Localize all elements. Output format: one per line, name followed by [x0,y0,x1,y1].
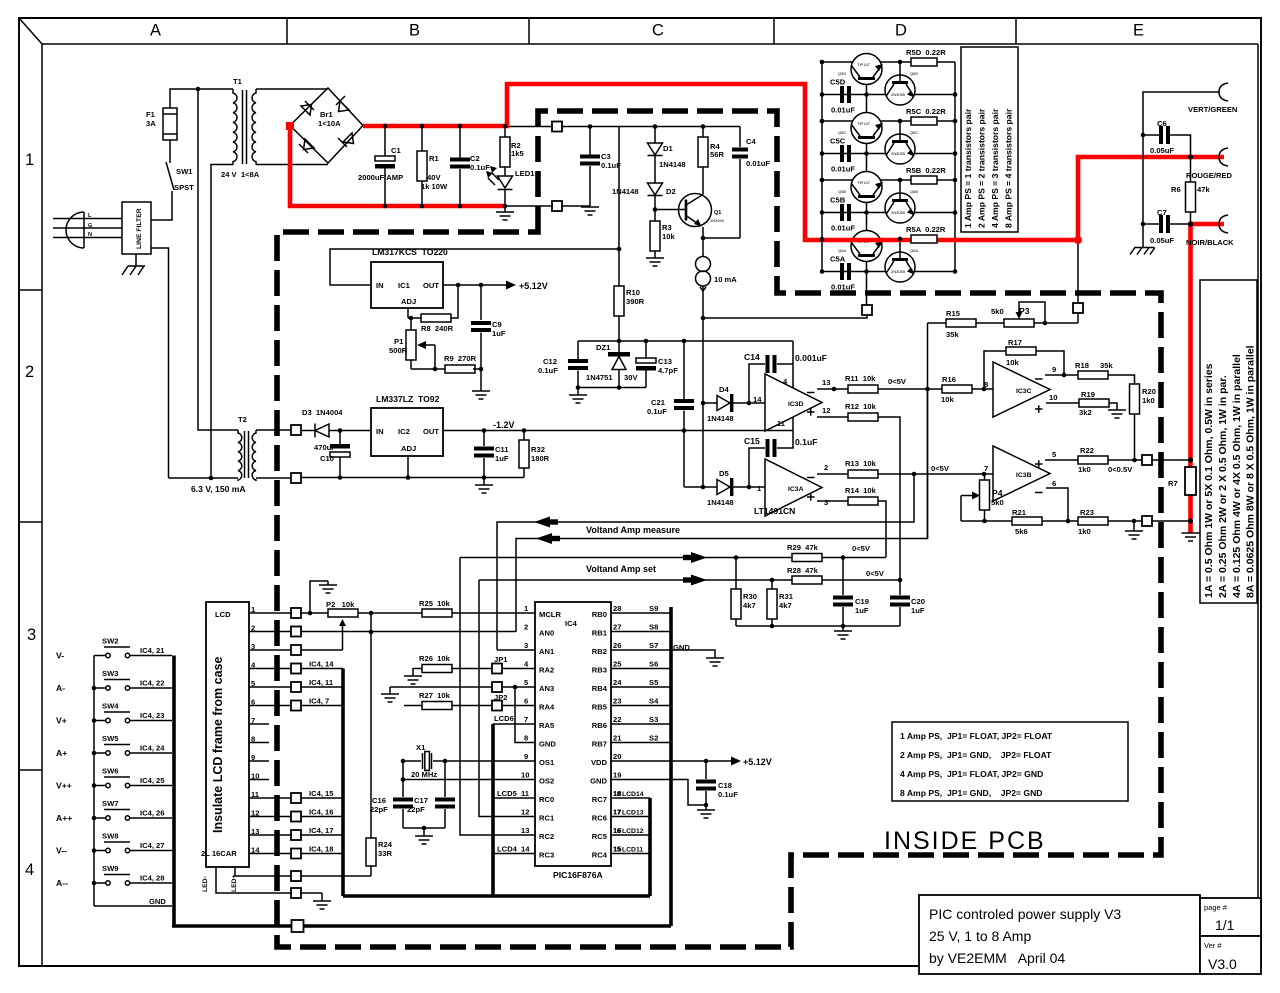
wire IC3A out 2 [817,473,848,475]
wire SW7 left [94,817,106,819]
red wire to NOIR and load R7 [1191,224,1225,533]
node Q6B base [898,178,903,183]
wire AN3 to GND pin8 [515,687,535,743]
svg-text:22pF: 22pF [370,805,388,814]
wire D2 to base node [654,196,656,210]
jumper JP2 upper [492,682,502,692]
node SW6 bus [92,783,97,788]
node C3 top [588,124,593,129]
svg-text:RB2: RB2 [592,647,607,656]
svg-text:ADJ: ADJ [401,444,416,453]
svg-text:Q1: Q1 [714,210,721,216]
resistor R1 1k 10W [421,126,423,151]
wire IC1 input [330,249,619,285]
svg-text:R27 10k: R27 10k [419,691,451,700]
svg-text:R5B 0.22R: R5B 0.22R [906,166,946,175]
wire S9 pin 28 [611,612,671,614]
node R9 to C9 [479,367,484,372]
wire LCD13 pin 17 [611,816,650,818]
wire LED minus [216,867,291,893]
svg-text:11: 11 [521,789,530,798]
resistor R5B 0.22R [911,176,937,184]
wire stage C cap rail [822,153,955,155]
wire SW5 left [94,752,106,754]
svg-text:2: 2 [824,463,828,472]
svg-text:OS1: OS1 [539,758,555,767]
node zener gnd [576,385,581,390]
ground LED minus [321,893,323,901]
wire LCD pin14 [249,853,291,855]
svg-text:3: 3 [524,641,528,650]
wire IC3A in 3 [817,500,848,502]
wire P3 to collector feed [1034,322,1078,324]
diode D3 1N4004 [301,430,315,432]
info box jumper settings [892,722,1128,801]
svg-text:1 Amp PS, JP1= FLOAT, JP2= FL: 1 Amp PS, JP1= FLOAT, JP2= FLOAT [900,731,1053,741]
svg-text:S9: S9 [649,604,658,613]
transistor Q5A TIP147 [851,231,882,262]
svg-text:C17: C17 [414,796,428,805]
node R31 bottom [770,624,775,629]
resistor R4 56R [702,127,704,138]
row tick 1-2 [19,289,42,291]
svg-text:P2 10k: P2 10k [326,600,355,609]
svg-text:P4: P4 [992,488,1003,498]
node Q6A base on red [898,237,903,242]
svg-text:LCD13: LCD13 [622,810,644,817]
svg-text:IC4, 25: IC4, 25 [140,776,165,785]
svg-text:R1: R1 [429,154,439,163]
svg-text:2000uF/AMP: 2000uF/AMP [358,173,403,182]
node stage C rail right [953,151,958,156]
transistor Q1 2N3904 [679,194,712,227]
node D5 x703 [701,485,706,490]
svg-text:1uF: 1uF [495,454,509,463]
svg-text:R16: R16 [942,375,956,384]
svg-text:JP1: JP1 [494,655,508,664]
svg-text:26: 26 [613,641,621,650]
svg-text:OS2: OS2 [539,777,554,786]
wire filter to ground [135,254,137,266]
node stage B center [864,210,869,215]
svg-text:8 Amp PS, JP1= GND, JP2= G: 8 Amp PS, JP1= GND, JP2= GND [900,788,1043,798]
svg-text:R6: R6 [1171,185,1181,194]
wire set 1 to PIC RC2 [460,558,535,836]
capacitor C5B 0.01uF [842,204,849,221]
node C7 left [1141,222,1146,227]
connector square minus rail [552,201,562,211]
svg-text:13: 13 [822,378,830,387]
potentiometer P3 5k0 [1004,319,1034,327]
connector square S bus [292,920,304,932]
svg-text:23: 23 [613,697,621,706]
wire LED plus to R24 [301,875,371,877]
node R1 bottom [420,204,425,209]
svg-text:A++: A++ [56,813,72,823]
svg-text:GND: GND [149,897,166,906]
node SW9 bus [92,881,97,886]
svg-text:IN: IN [376,427,384,436]
svg-text:14: 14 [521,845,530,854]
svg-text:IC1: IC1 [398,281,411,290]
svg-text:C10: C10 [320,454,334,463]
wire S7 gnd stub [671,650,715,658]
connector square T2 bottom [291,473,301,483]
svg-text:IC4, 14: IC4, 14 [309,660,334,669]
capacitor C7 0.05uF [1142,135,1144,224]
ground under C12 [577,388,579,396]
node DZ1 top [617,339,622,344]
wire LCD pin9 stub [249,760,269,762]
resistor R32 180R [523,431,525,441]
wire filter to SW1 [151,191,172,220]
svg-text:R12 10k: R12 10k [845,402,877,411]
node R13 out [912,472,917,477]
bus LCD bottom horizontal [343,894,650,898]
wire LCD pin6 [249,705,291,707]
svg-text:AN3: AN3 [539,684,554,693]
svg-text:0.1uF: 0.1uF [718,790,738,799]
wire IC3D out 13 [817,388,848,390]
svg-text:Ver #: Ver # [1204,941,1222,950]
svg-text:LCD6: LCD6 [494,714,514,723]
node X1 left [401,759,406,764]
svg-text:VERT/GREEN: VERT/GREEN [1188,105,1237,114]
node D4 cathode [747,401,752,406]
svg-text:0.1uF: 0.1uF [601,161,621,170]
svg-text:1k 10W: 1k 10W [421,182,448,191]
svg-text:SW8: SW8 [102,832,118,841]
wire R23 to red [1152,520,1191,522]
node SW8 bus [92,848,97,853]
node D4 anode [701,401,706,406]
wire IC1 output [443,284,508,286]
arrow +5.12V [506,281,516,290]
node R20 bottom [1132,458,1137,463]
wire C6 C7 ground [1142,224,1144,247]
svg-text:0<5V: 0<5V [888,377,907,386]
svg-text:0.01uF: 0.01uF [831,165,855,174]
resistor R27 10k [422,702,452,710]
connector square T2 top [291,425,301,435]
svg-text:Q6C: Q6C [910,130,918,135]
svg-text:RC1: RC1 [539,814,555,823]
svg-text:SW6: SW6 [102,767,118,776]
svg-text:TIP147: TIP147 [857,121,871,126]
node SW3 bus [92,686,97,691]
node D1 rail [653,124,658,129]
svg-text:2: 2 [524,623,528,632]
svg-text:C5A: C5A [830,255,846,264]
connector NOIR/BLACK [1219,215,1228,233]
svg-text:25: 25 [613,660,622,669]
svg-text:V+: V+ [56,716,67,726]
svg-text:IC4, 23: IC4, 23 [140,711,164,720]
dashed inside PCB boundary [277,111,1161,947]
node C2 top [458,124,463,129]
svg-text:1A = 0.5 Ohm 1W or 5X 0.1 Ohm,: 1A = 0.5 Ohm 1W or 5X 0.1 Ohm, 0.5W in s… [1203,363,1215,598]
resistor R5D 0.22R [911,58,937,66]
wire filter to T2 winding [151,248,169,478]
svg-text:1 Amp PS = 1 transistors pair: 1 Amp PS = 1 transistors pair [963,108,973,228]
node D5 cathode [747,485,752,490]
op-amp IC3C [993,362,1050,417]
node C21 bottom [682,428,687,433]
resistor R3 10k [654,210,656,222]
wire plus rail down to IC1 [618,127,620,287]
wire crystal ground rail [403,827,445,829]
svg-text:0<5V: 0<5V [866,569,885,578]
svg-text:SW2: SW2 [102,637,118,646]
svg-text:PIC controled power supply V3: PIC controled power supply V3 [929,906,1121,922]
svg-text:R7: R7 [1168,479,1178,488]
svg-text:2N3904: 2N3904 [710,218,725,223]
node stage A center [864,269,869,274]
node R11 rail [925,387,930,392]
svg-text:AN1: AN1 [539,647,555,656]
svg-text:20 MHz: 20 MHz [411,770,437,779]
node C21 top [682,339,687,344]
op-amp IC3A [765,459,822,516]
svg-text:4: 4 [25,861,34,879]
resistor R10 390R [614,286,624,316]
svg-text:17: 17 [613,810,621,817]
svg-text:R5D 0.22R: R5D 0.22R [906,48,946,57]
svg-text:INSIDE PCB: INSIDE PCB [884,827,1046,855]
wire LCD pin2 [249,631,291,633]
wire S6 pin 25 [611,668,671,670]
svg-text:R3: R3 [662,223,672,232]
svg-text:4.7pF: 4.7pF [658,366,678,375]
svg-text:A--: A-- [56,878,68,888]
wire 10mA node to diodes [702,318,704,487]
capacitor C5A 0.01uF [842,263,849,280]
svg-text:1k5: 1k5 [511,149,524,158]
svg-text:IC4, 16: IC4, 16 [309,808,333,817]
node C1 bottom [383,204,388,209]
resistor R28 47k [792,576,822,584]
node T2 primary bottom [209,476,214,481]
node stage B left rail [820,210,825,215]
wire IC3B in 5 [1045,459,1078,461]
svg-text:RB4: RB4 [592,684,608,693]
svg-text:E: E [1133,22,1144,40]
svg-text:1: 1 [25,151,34,169]
wire LCD pin4 [249,668,291,670]
svg-text:R23: R23 [1080,508,1094,517]
svg-text:R21: R21 [1012,508,1027,517]
resistor R16 10k [928,388,943,390]
connector square R22 out [1142,455,1152,465]
arrow measure 1 [534,517,550,528]
node stage A left rail [820,269,825,274]
wire minus rail down to D5 [683,431,685,488]
svg-text:0<5V: 0<5V [852,544,871,553]
capacitor C16 22pF [402,780,404,798]
svg-text:10: 10 [1049,393,1057,402]
svg-text:0<5V: 0<5V [931,464,950,473]
svg-text:SW7: SW7 [102,799,118,808]
resistor R30 4k7 [735,558,737,590]
svg-text:10 mA: 10 mA [714,275,737,284]
svg-text:Insulate LCD frame from case: Insulate LCD frame from case [211,657,225,833]
regulator IC1 LM317KCS TO220 [371,262,443,308]
node C6 left [1141,133,1146,138]
svg-text:1<10A: 1<10A [318,119,341,128]
resistor R22 1k0 [1078,456,1108,464]
svg-text:6: 6 [1052,479,1056,488]
wire P2 row [357,612,422,614]
resistor R5C 0.22R [911,117,937,125]
svg-text:24: 24 [613,678,622,687]
svg-text:1N4751: 1N4751 [586,373,613,382]
switch SW4 [106,718,110,722]
svg-text:X1: X1 [416,743,426,752]
node P2 right [369,611,374,616]
svg-text:18: 18 [613,791,621,798]
svg-text:IC4, 26: IC4, 26 [140,809,164,818]
wire R26 gnd [413,669,422,677]
svg-text:Q6D: Q6D [910,71,918,76]
wire 0-5V rail vertical [927,323,929,539]
wire S3 pin 22 [611,723,671,725]
svg-text:RC4: RC4 [592,851,608,860]
svg-text:R29 47k: R29 47k [787,543,819,552]
svg-text:4 Amp PS = 3 transistors pair: 4 Amp PS = 3 transistors pair [990,108,1000,228]
svg-text:5: 5 [1052,450,1057,459]
svg-text:T2: T2 [238,415,247,424]
svg-text:RB7: RB7 [592,740,607,749]
ground near S labels [706,658,724,666]
wire IC3C in 10 [1046,402,1079,404]
svg-text:Q6A: Q6A [910,248,918,253]
bridge rectifier Br1 [290,88,363,163]
svg-text:RC3: RC3 [539,851,554,860]
svg-text:1k0: 1k0 [1142,396,1155,405]
wire SW1 to F1 [169,140,171,163]
svg-text:C7: C7 [1157,208,1167,217]
svg-text:S6: S6 [649,660,658,669]
wire IC2 adj stub [407,456,409,478]
wire VDD pin20 [611,760,732,762]
line filter FL1 [122,202,151,254]
wire switch common bus [93,656,95,907]
ground P2 [327,581,329,585]
svg-text:IC4, 15: IC4, 15 [309,789,334,798]
transistor Q5D TIP147 [851,54,882,85]
resistor R8 240R [408,317,421,319]
wire OS2 row [403,761,535,780]
svg-text:12: 12 [521,808,529,817]
capacitor C21 0.1uF [683,341,685,399]
node bank left red [820,237,825,242]
node pin13 [832,387,837,392]
svg-text:SW3: SW3 [102,669,118,678]
wire LCD pin3 [249,649,291,651]
svg-text:C16: C16 [372,796,386,805]
capacitor C3 0.1uF [589,127,591,156]
node LED1 bottom [503,204,508,209]
svg-text:R20: R20 [1142,387,1156,396]
svg-text:R24: R24 [378,840,393,849]
wire bank right rail [954,62,956,272]
svg-text:0.1uF: 0.1uF [795,437,817,447]
wire stage B top [822,179,955,181]
svg-text:DZ1: DZ1 [596,343,611,352]
svg-text:IC4, 27: IC4, 27 [140,841,164,850]
svg-text:C5C: C5C [830,137,846,146]
wire SW8 left [94,850,106,852]
svg-text:N: N [88,232,92,238]
svg-text:V3.0: V3.0 [1208,956,1237,972]
wire F1 to T1 primary [170,89,233,108]
capacitor C14 0.001uF [749,364,765,403]
wire P2 left ground [310,581,328,613]
svg-text:Br1: Br1 [320,110,333,119]
svg-text:C9: C9 [492,320,502,329]
svg-text:C5D: C5D [830,78,846,87]
svg-text:GND: GND [590,777,607,786]
node IC1 out a [456,283,461,288]
resistor R5A 0.22R [911,235,937,243]
svg-text:SW1: SW1 [176,167,193,176]
resistor R21 5k6 [984,510,986,521]
svg-text:B: B [409,22,420,40]
node R17 right [1062,373,1067,378]
LCD connector box [206,602,249,867]
svg-text:D3 1N4004: D3 1N4004 [302,408,343,417]
svg-text:Voltand Amp set: Voltand Amp set [586,564,656,574]
node adj R8 [409,316,414,321]
resistor R15 35k [928,322,947,324]
resistor R20 1k0 [1130,384,1140,414]
svg-text:R5C 0.22R: R5C 0.22R [906,107,946,116]
svg-text:RB0: RB0 [592,610,607,619]
svg-text:C14: C14 [744,352,760,362]
wire LCD pin10 stub [249,779,269,781]
node SW5 bus [92,751,97,756]
svg-text:R11 10k: R11 10k [845,374,876,383]
svg-text:28: 28 [613,604,621,613]
svg-text:P1: P1 [394,337,404,346]
connector square LCD4 [291,664,301,674]
node crystal gnd [422,826,427,831]
svg-text:RC6: RC6 [592,814,607,823]
ground AN3 [381,694,399,702]
svg-text:Q5A: Q5A [838,248,846,253]
capacitor C20 1uF [899,580,901,595]
svg-text:LCD11: LCD11 [622,847,643,854]
wire LCD pin11 [249,797,291,799]
svg-text:5k6: 5k6 [1015,527,1028,536]
svg-text:4 Amp PS, JP1= FLOAT, JP2= GN: 4 Amp PS, JP1= FLOAT, JP2= GND [900,769,1043,779]
resistor R31 4k7 [771,580,773,589]
wire amp measure to AN0 [516,389,928,632]
svg-text:470uF: 470uF [314,443,336,452]
connector VERT/GREEN [1219,83,1228,101]
wire after connector minus [562,205,590,207]
svg-text:1uF: 1uF [911,606,925,615]
node stage D left top [820,60,825,65]
node IC1 out b [479,283,484,288]
svg-text:C2: C2 [470,154,480,163]
capacitor C19 1uF [842,558,844,596]
wire SW8 to bus [130,850,172,852]
diode D5 1N4148 [684,486,717,488]
svg-text:7: 7 [524,715,528,724]
ground under R7 [1182,533,1200,541]
svg-text:by VE2EMM April 04: by VE2EMM April 04 [929,950,1065,966]
